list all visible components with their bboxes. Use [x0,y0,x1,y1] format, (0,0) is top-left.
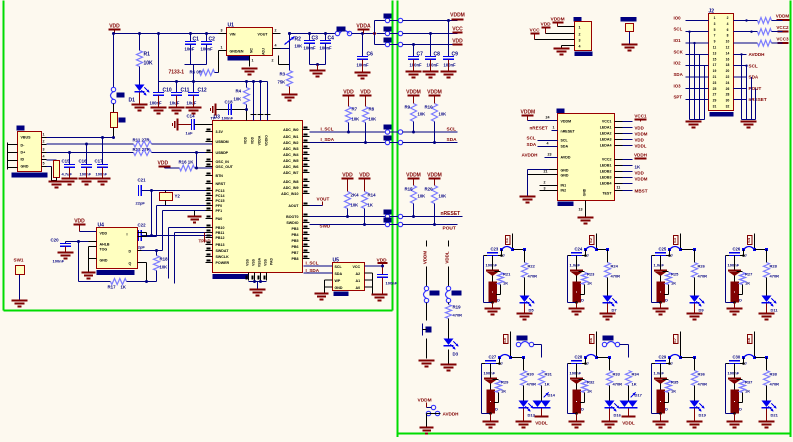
U4 right pin 1 [138,233,157,237]
svg-text:10uF: 10uF [170,101,180,106]
svg-text:R20: R20 [425,187,434,192]
U6 right pins group 2 [615,160,633,184]
resistor R7 10K [346,107,360,133]
svg-text:VCC2: VCC2 [602,158,612,162]
svg-text:ADC_IN0: ADC_IN0 [283,128,298,132]
LED D16 row2 [605,386,622,418]
svg-text:D: D [581,407,584,412]
capacitor C20 [51,238,74,264]
power port VDD (R7) [343,90,355,107]
resistor R20 10K [425,186,447,225]
ground LED row2 (cell C27) [516,409,532,428]
U1 part number text [228,56,250,61]
svg-text:ADJ: ADJ [262,48,266,55]
svg-text:R19: R19 [453,305,462,310]
svg-text:ADC_IN8: ADC_IN8 [283,180,298,184]
svg-text:ADC_IN10: ADC_IN10 [281,192,298,196]
J2 left net labels and wires [674,16,709,100]
capacitor C22 [136,223,213,250]
svg-text:J: J [671,362,673,366]
jumper TP0 [424,286,440,302]
power port VDDM (R15) [406,173,421,186]
svg-text:C2: C2 [209,37,216,43]
svg-text:2: 2 [579,33,581,37]
test point jumper TP2 [511,336,542,358]
ground LED (cell C23) [517,304,533,320]
U6 NC pins [540,181,558,191]
svg-text:1: 1 [714,16,716,20]
svg-text:C8: C8 [434,52,441,58]
svg-text:1K: 1K [632,382,637,387]
svg-text:SW1: SW1 [14,258,24,263]
wire C3 C4 ground bus [310,63,326,77]
svg-text:C6: C6 [367,52,374,58]
svg-text:1K: 1K [745,389,750,394]
svg-text:VDD: VDD [244,136,248,144]
U1 bottom pin to ground [242,56,258,75]
svg-text:R6 0R: R6 0R [190,70,203,75]
ground left row2 (cell C29) [653,414,669,428]
svg-text:VDD: VDD [635,126,644,131]
wire SWD row to jumper [310,223,386,226]
svg-text:SDA: SDA [527,142,537,147]
jumper TP1 [446,286,462,302]
svg-text:VSS: VSS [246,258,250,266]
svg-text:4.7uF: 4.7uF [62,172,73,177]
BOOT test pad [621,17,638,51]
jumper W4 row VDD [375,38,458,47]
svg-text:S7: S7 [672,337,677,343]
MCU left pin stubs [206,129,213,263]
MCU part number highlighted [213,274,249,279]
left loop wire row2 (cell C27) [482,364,492,415]
svg-text:R26: R26 [698,264,706,269]
svg-text:1.0uF: 1.0uF [570,263,581,268]
svg-text:TP: TP [211,116,216,121]
svg-text:470R: 470R [527,382,537,387]
power port VDDM (R9) [406,90,421,104]
svg-text:23: 23 [713,81,717,85]
capacitor C15 100nF [62,153,78,185]
J1 part number [12,173,48,178]
switch SW1 pad [12,258,28,307]
svg-text:J: J [587,362,589,366]
svg-text:C24: C24 [575,247,583,252]
svg-text:I_SCL: I_SCL [321,127,334,132]
svg-text:D: D [497,298,500,303]
power port VDD (R14) [359,173,371,192]
fuse F1 [111,104,126,138]
power port VDDM (J2 row1) [772,14,790,21]
wire D- row to R11 [47,143,134,146]
svg-text:D21: D21 [771,413,779,418]
resistor R34 second branch [626,371,640,387]
svg-text:9: 9 [714,40,716,44]
dual LED D14 [533,386,556,408]
EEPROM U5 body [333,258,365,291]
svg-text:7133-1: 7133-1 [169,70,185,76]
J1 shield pins [8,143,18,170]
ground left row2 (cell C28) [569,414,585,428]
ground left row2 (cell C27) [483,414,499,428]
svg-text:VDDM: VDDM [776,14,790,19]
svg-text:VCC1: VCC1 [602,120,612,124]
svg-text:4: 4 [275,44,277,48]
capacitor C17 100nF [95,138,111,185]
net label VDDM (bottom cluster) [418,398,436,410]
photodiode D12 row2 [484,364,498,414]
left loop wire row2 (cell C28) [568,364,578,415]
side ground and capacitor C14 [173,114,213,136]
wire hop jumper (cell C28 row2) [584,355,611,366]
svg-text:R37: R37 [745,380,753,385]
J2 left ground bus [688,31,704,120]
svg-text:10K: 10K [369,117,377,122]
wire hop jumper (cell C26) [742,247,768,258]
wire GND pin down [47,167,57,181]
svg-text:R25: R25 [671,272,679,277]
svg-text:LEDA4: LEDA4 [600,144,612,148]
LED D3 [444,319,459,357]
svg-text:22pF: 22pF [136,201,146,206]
resistor R17 1K [79,242,147,290]
wire crystal net [151,191,153,236]
U1 pin 3 (VIN) [219,29,227,34]
wire C1 C2 ground bus [185,65,207,82]
svg-text:VDDL: VDDL [622,421,635,426]
svg-text:PB4: PB4 [292,233,299,237]
svg-text:C14: C14 [187,114,196,119]
resistor R35 1K row2 [663,380,680,403]
svg-text:R10: R10 [425,105,434,110]
svg-text:PAD: PAD [270,258,274,265]
capacitor C21 [136,178,213,206]
LED D7 [603,278,618,313]
ground small near MCU [188,211,202,223]
svg-text:29: 29 [713,99,717,103]
ground J2 right [741,122,757,128]
U1 pin 2 (VOUT) [273,29,281,34]
svg-text:3: 3 [579,39,581,43]
resistor R16 1K [179,153,213,172]
svg-text:R36: R36 [698,372,706,377]
ESD protection D2 [54,161,60,181]
switch S0 [423,303,432,359]
svg-text:AVDDH: AVDDH [749,52,766,57]
svg-text:R7: R7 [352,107,358,112]
svg-text:IO2: IO2 [674,61,682,66]
svg-text:24: 24 [546,116,550,120]
U1 pin labels [230,33,269,55]
svg-text:GND: GND [335,286,343,290]
svg-text:SCL: SCL [447,127,457,133]
capacitor C2 100nF [201,34,216,65]
resistor R25 1K (parallel) [663,272,680,295]
svg-text:D9: D9 [699,308,705,313]
wire hop jumper (cell C25) [668,247,696,258]
svg-text:VDDA: VDDA [258,135,262,145]
svg-text:470R: 470R [528,274,538,279]
svg-text:R32: R32 [587,380,595,385]
svg-text:PB5: PB5 [292,239,299,243]
svg-text:10uF: 10uF [187,101,197,106]
svg-text:D: D [495,407,498,412]
svg-text:IO0: IO0 [674,16,682,21]
resistor R12 27R [133,147,152,156]
U5 right pins [365,266,373,294]
svg-text:1K: 1K [587,389,592,394]
svg-text:U4: U4 [98,223,105,229]
svg-text:470R: 470R [698,274,708,279]
svg-text:4: 4 [579,45,581,49]
svg-text:100nF: 100nF [728,371,740,376]
svg-text:R38: R38 [770,372,778,377]
U6 right power labels group2 [634,153,648,182]
ground TP0 [419,361,435,367]
MCU right pin name column [281,128,299,261]
svg-text:VDDM: VDDM [418,398,432,404]
svg-text:R16 1K: R16 1K [179,160,195,165]
U4 part number highlighted [97,270,135,275]
svg-text:NC: NC [250,48,254,53]
resistor R18 10K [145,251,168,284]
photodiode D10 (triangle+body) [728,256,742,303]
svg-text:GND: GND [561,174,569,178]
svg-text:100nF: 100nF [427,63,440,68]
U5 left lower pins to ground [314,280,332,300]
power port VDD (J3) [541,22,575,34]
svg-text:GND: GND [583,188,587,196]
svg-text:VDDL: VDDL [445,251,450,264]
J3 pin 4 to ground [554,46,575,55]
svg-text:AVDDH: AVDDH [522,153,539,158]
resistor R26 470R (LED branch) [692,250,708,279]
svg-text:100nF: 100nF [80,172,92,177]
svg-text:100nF: 100nF [150,101,163,106]
svg-text:LEDB1: LEDB1 [600,164,612,168]
svg-text:VBUS: VBUS [21,136,32,140]
svg-text:2: 2 [275,29,277,33]
J3 part number highlighted [575,52,593,57]
svg-text:VDDH: VDDH [634,153,648,158]
svg-text:6: 6 [727,28,729,32]
svg-text:4: 4 [727,22,729,26]
capacitor C9 100nF [441,21,459,78]
jumper W5 SCL crossing [384,125,403,135]
svg-text:SCK: SCK [674,49,684,54]
U6 body [557,109,615,201]
svg-text:GND: GND [561,169,569,173]
svg-text:GND: GND [21,165,29,169]
svg-text:2: 2 [544,181,546,185]
svg-text:14: 14 [726,51,730,55]
net label AVDDH (U6) [522,153,558,158]
U6 right pins group 1 [615,122,633,146]
svg-text:SDA: SDA [749,75,759,80]
svg-text:23: 23 [548,153,552,157]
svg-text:1K: 1K [635,165,641,170]
svg-text:USBDM: USBDM [216,140,229,144]
U4 left pin GND [81,259,96,279]
svg-text:ADC_IN7: ADC_IN7 [283,171,298,175]
capacitor C16 100nF [79,144,95,185]
svg-text:100nF: 100nF [444,63,457,68]
svg-text:3.3V: 3.3V [216,130,224,134]
resistor R4 10K (top) [234,80,250,110]
capacitor C4 100nF [320,32,335,65]
resistor R24 470R (LED branch) [605,250,621,279]
svg-text:IN1: IN1 [561,184,567,188]
svg-text:nRESET: nRESET [441,211,461,217]
svg-text:SDA: SDA [447,137,458,143]
svg-text:3: 3 [43,148,45,152]
svg-text:IN2: IN2 [561,189,567,193]
svg-text:S5: S5 [502,337,507,343]
svg-text:AVDD: AVDD [561,156,571,160]
svg-text:I_SCL: I_SCL [306,261,319,266]
ground left (cell C25) [653,303,669,315]
svg-text:20: 20 [726,69,730,73]
dual LED D17 [620,386,643,408]
svg-text:D: D [739,407,742,412]
capacitor C25 1.0uF [652,247,671,268]
net label column TP0 [423,241,428,287]
capacitor C29 1.0uF [652,355,671,376]
resistor R9 10K [405,104,426,133]
svg-text:LEDB3: LEDB3 [600,176,612,180]
svg-text:MBST: MBST [635,189,648,194]
svg-text:100nF: 100nF [386,281,398,286]
power port VDD (U4) [74,219,97,232]
svg-text:PB6: PB6 [292,245,299,249]
svg-text:24: 24 [726,81,730,85]
svg-text:BOOT0: BOOT0 [286,215,298,219]
svg-text:C9: C9 [452,52,459,58]
net label S7 (cell row2) [672,332,681,358]
svg-text:nRESET: nRESET [561,130,576,134]
svg-text:R33: R33 [613,372,621,377]
svg-text:GND/EN: GND/EN [230,50,244,54]
svg-text:R21: R21 [503,272,511,277]
power port VDDM (U6) [521,110,558,121]
power port VCC3 (J2 row3) [772,37,790,44]
U6 right power labels group1 [634,114,647,149]
LED D11 [762,278,779,313]
svg-text:10K: 10K [160,265,168,270]
svg-text:13: 13 [713,51,717,55]
svg-text:25: 25 [713,87,717,91]
ground under USB [49,182,65,188]
net label S5 (cell row2) [502,332,511,345]
svg-text:1K: 1K [545,382,550,387]
LED D21 row2 [762,386,779,418]
power port VDD (U5) [365,258,388,275]
left loop wire (cell C23) [484,256,494,304]
svg-text:10K: 10K [439,194,447,199]
svg-text:10K: 10K [351,203,359,208]
power port VDD (R16) [158,161,180,169]
wire U4 output B to MCU [163,211,213,251]
svg-text:ADC_IN2: ADC_IN2 [283,141,298,145]
U6 pin names [561,120,613,197]
U5 pin names [335,265,361,290]
svg-text:VCC2: VCC2 [776,25,789,30]
svg-text:SWDIO: SWDIO [286,221,298,225]
svg-text:1K: 1K [368,203,373,208]
svg-text:D3: D3 [453,352,459,357]
resistor R37 1K row2 [737,380,754,403]
U4 right pin D [138,249,163,252]
svg-text:ADC_IN6: ADC_IN6 [283,165,298,169]
svg-text:8: 8 [727,34,729,38]
jumper W1 (vertical, under VDD rail) [111,34,125,104]
svg-text:2: 2 [727,16,729,20]
wire ID row to ESD device [47,159,57,161]
svg-text:1: 1 [43,133,45,137]
svg-text:2: 2 [272,59,274,63]
U6 bottom right pin [615,186,648,194]
net label S4 (cell) [746,234,755,250]
svg-text:11: 11 [617,186,621,190]
svg-text:VSS: VSS [264,258,268,266]
svg-text:SCL: SCL [561,139,569,143]
svg-text:C15: C15 [62,159,71,164]
svg-text:S4: S4 [746,237,751,243]
svg-text:LEDA3: LEDA3 [600,138,612,142]
svg-text:R30: R30 [527,372,535,377]
svg-text:10K: 10K [144,61,154,67]
ground left (cell C26) [727,303,743,315]
J1 pin stubs right [42,133,47,167]
ground LED row2 (cell C28) [602,409,618,428]
svg-text:SPT: SPT [674,95,683,100]
power port VDD (R8) [360,90,372,107]
svg-text:30: 30 [726,99,730,103]
svg-text:22: 22 [726,75,730,79]
U4 left pin row 3 [89,247,97,259]
svg-text:TOG: TOG [100,248,108,252]
left loop wire row2 (cell C30) [726,364,736,415]
svg-text:R14: R14 [368,193,377,198]
svg-text:R31: R31 [545,372,553,377]
svg-text:5: 5 [43,162,45,166]
MCU top pin name columns [244,135,269,146]
MCU top pins from bus [251,82,271,121]
svg-text:1: 1 [221,46,223,50]
svg-text:C7: C7 [417,52,424,58]
ground LED (cell C24) [600,304,616,320]
svg-text:SDA: SDA [674,72,684,77]
capacitor C26 100nF [726,247,745,268]
svg-text:SWCLK: SWCLK [216,255,230,259]
svg-text:SCL: SCL [335,265,343,269]
svg-text:POUT: POUT [749,86,762,91]
svg-text:C28: C28 [575,355,583,360]
resistor R29 1K row2 [493,380,510,403]
svg-text:VDDM: VDDM [423,251,428,265]
svg-text:VDDIO: VDDIO [265,135,269,146]
potentiometer R2 [281,32,303,49]
svg-text:16: 16 [726,57,730,61]
resistor R19 470R [446,303,463,319]
power rail VDDL below dual LED [622,409,636,426]
svg-text:VSS: VSS [252,258,256,266]
svg-text:18: 18 [726,63,730,67]
jumper W7 crossing [384,210,403,219]
connector J2 body [709,9,734,111]
sheet 2 border (right schematic sheet) [398,1,791,438]
svg-text:C22: C22 [138,223,147,228]
